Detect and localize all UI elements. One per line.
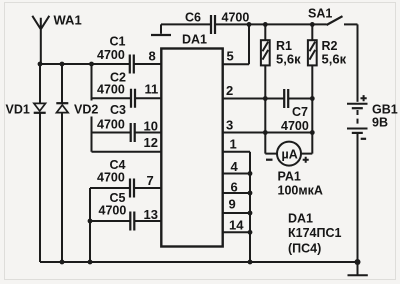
wire bottom rail	[40, 261, 358, 263]
antenna WA1	[32, 13, 81, 64]
svg-text:13: 13	[144, 207, 158, 222]
svg-text:VD2: VD2	[74, 103, 98, 117]
stub to IC top with bar	[160, 24, 162, 33]
node dot VD2 junction	[60, 62, 65, 67]
svg-text:5,6к: 5,6к	[322, 52, 347, 67]
wire R2 bottom	[311, 65, 313, 132]
capacitor C4	[90, 158, 161, 198]
svg-text:C3: C3	[110, 103, 126, 117]
node dot meter plus / pin3 end	[310, 130, 315, 135]
node dots bottom rail	[60, 260, 65, 265]
capacitor C5	[90, 191, 161, 231]
svg-text:(ПС4): (ПС4)	[288, 242, 321, 256]
svg-text:VD1: VD1	[6, 103, 30, 117]
svg-text:9: 9	[229, 196, 236, 211]
capacitor C7	[281, 89, 312, 133]
resistor R1	[261, 24, 301, 66]
wire bus2	[89, 188, 91, 262]
node dot R1 top	[263, 22, 268, 27]
node dot bus1 junction	[89, 62, 94, 67]
pin 1 lead	[223, 151, 250, 153]
diode VD1	[6, 64, 46, 262]
capacitor C6	[185, 11, 249, 35]
meter PA1	[266, 142, 323, 198]
svg-text:C6: C6	[185, 11, 201, 25]
capacitor C2	[92, 71, 162, 108]
svg-text:SA1: SA1	[308, 6, 332, 20]
svg-text:4700: 4700	[281, 119, 309, 133]
switch SA1	[308, 6, 358, 25]
svg-text:4700: 4700	[97, 48, 125, 62]
node dot bus2-C5	[88, 219, 93, 224]
wire battery to rail	[357, 133, 359, 262]
wire pin12 lead	[92, 151, 162, 153]
node dot antenna junction	[38, 62, 43, 67]
wire bus1	[91, 64, 93, 152]
capacitor C3	[92, 103, 162, 142]
svg-text:11: 11	[145, 82, 159, 97]
svg-text:2: 2	[226, 83, 233, 98]
svg-text:4700: 4700	[99, 203, 127, 217]
svg-text:WA1: WA1	[54, 13, 82, 28]
capacitor C1	[97, 34, 134, 73]
svg-text:10: 10	[144, 119, 158, 134]
svg-text:DA1: DA1	[288, 212, 313, 226]
wire R1 bottom to meter minus	[265, 65, 277, 153]
svg-text:4700: 4700	[97, 83, 125, 97]
ground	[348, 262, 368, 275]
svg-text:К174ПС1: К174ПС1	[288, 226, 341, 240]
pin 9 lead	[223, 212, 250, 214]
node dot R1/pin2	[263, 96, 268, 101]
pin 3 lead	[223, 132, 313, 134]
node dot R2/C7	[310, 96, 315, 101]
pin 6 lead	[223, 192, 250, 194]
node dots right bus	[248, 171, 253, 176]
wire meter plus riser	[301, 133, 312, 154]
svg-text:3: 3	[226, 117, 233, 132]
svg-text:4: 4	[231, 159, 239, 174]
pin 4 lead	[223, 173, 250, 175]
resistor R2	[308, 24, 347, 66]
svg-text:6: 6	[231, 179, 238, 194]
svg-text:4700: 4700	[97, 118, 125, 132]
svg-text:100мкА: 100мкА	[278, 183, 323, 197]
node dot SA1/R2	[310, 22, 315, 27]
pin 5 lead and riser	[223, 24, 249, 64]
svg-text:12: 12	[144, 135, 158, 150]
svg-text:µА: µА	[282, 148, 298, 162]
svg-text:9В: 9В	[372, 115, 388, 129]
svg-text:4700: 4700	[222, 11, 250, 25]
svg-text:C7: C7	[292, 105, 308, 119]
svg-text:C1: C1	[110, 34, 126, 48]
wire top rail	[161, 23, 327, 25]
svg-text:4700: 4700	[97, 170, 125, 184]
svg-text:5,6к: 5,6к	[276, 52, 301, 67]
op-amp / IC DA1 box	[161, 33, 222, 247]
svg-text:PA1: PA1	[278, 170, 301, 184]
pin 14 lead	[223, 231, 250, 233]
pin 2 lead	[223, 98, 285, 100]
wire SA1 to battery	[357, 24, 359, 101]
svg-text:7: 7	[147, 173, 154, 188]
diode VD2	[56, 64, 98, 262]
node dot meter minus / pin3	[263, 130, 268, 135]
svg-text:DA1: DA1	[182, 33, 207, 47]
battery GB1	[347, 95, 398, 139]
svg-text:5: 5	[227, 49, 234, 64]
legend DA1 type	[288, 212, 341, 256]
wire top-left horizontal to C1	[40, 63, 161, 65]
wire right pin bus	[249, 152, 251, 262]
svg-text:1: 1	[230, 136, 237, 151]
svg-text:8: 8	[149, 49, 156, 64]
svg-text:14: 14	[229, 218, 244, 233]
node dot pin5 riser	[247, 22, 252, 27]
